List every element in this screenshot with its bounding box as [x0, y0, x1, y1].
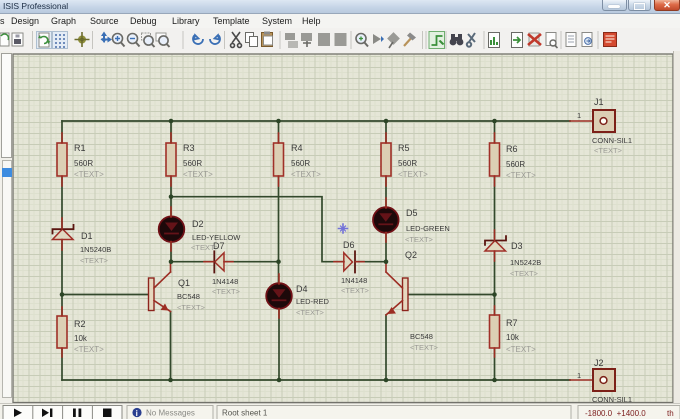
wire D6 cathode to node: [356, 261, 387, 263]
resistor R2: [57, 316, 104, 354]
toolbar: [0, 28, 680, 53]
wire top power rail: [62, 120, 570, 122]
svg-text:Root sheet 1: Root sheet 1: [222, 409, 268, 418]
svg-text:<TEXT>: <TEXT>: [510, 269, 539, 278]
svg-text:<TEXT>: <TEXT>: [296, 308, 325, 317]
icon: copy: [246, 33, 258, 47]
junction node R4/D4: [276, 259, 281, 264]
svg-text:1N4148: 1N4148: [341, 276, 367, 285]
junction top rail R3: [169, 119, 174, 124]
icon: doc export: [582, 33, 592, 47]
junction top rail R6: [492, 119, 497, 124]
svg-text:Q1: Q1: [178, 278, 190, 288]
sim buttons: [0, 403, 680, 419]
menu bar: [0, 14, 680, 28]
svg-text:D4: D4: [296, 284, 308, 294]
resistor R5: [381, 143, 428, 179]
svg-text:R5: R5: [398, 143, 410, 153]
wire R2 branch down to ground: [61, 295, 63, 381]
wire D2 to D7 node: [171, 242, 214, 262]
svg-text:D3: D3: [511, 241, 523, 251]
svg-text:J1: J1: [594, 97, 604, 107]
icon: grid dots (toggled): [53, 32, 68, 49]
svg-text:R3: R3: [183, 143, 195, 153]
icon: zoom in: [113, 34, 125, 47]
icon: edit magnifier: [356, 34, 368, 47]
svg-text:No Messages: No Messages: [146, 409, 195, 418]
status bar: [0, 403, 680, 419]
marker blue cross: [339, 224, 348, 233]
svg-text:D6: D6: [343, 240, 355, 250]
zener diode D3: [485, 236, 541, 278]
icon: refresh page (toggled): [37, 32, 52, 49]
icon: block copy: [285, 33, 298, 48]
svg-text:560R: 560R: [506, 160, 525, 169]
wire bottom ground rail: [62, 379, 570, 381]
wire Q2 emitter to ground: [385, 315, 387, 380]
svg-text:1N5240B: 1N5240B: [80, 245, 111, 254]
icon: autoroute (toggled): [429, 32, 445, 49]
svg-text:<TEXT>: <TEXT>: [80, 256, 109, 265]
svg-text:<TEXT>: <TEXT>: [410, 343, 439, 352]
svg-text:D2: D2: [192, 219, 204, 229]
icon: goto: [373, 34, 384, 44]
junction bottom rail R7: [492, 378, 497, 383]
icon: goto sheet: [546, 33, 558, 49]
icon: hammer: [404, 33, 416, 47]
icon: pin tool: [387, 32, 400, 48]
svg-text:<TEXT>: <TEXT>: [594, 146, 623, 155]
svg-text:10k: 10k: [506, 333, 520, 342]
icon: zoom full: [156, 33, 170, 47]
resistor R1: [57, 143, 104, 179]
junction node D2/D7: [169, 259, 174, 264]
icon: cut: [231, 32, 242, 48]
svg-text:CONN-SIL1: CONN-SIL1: [592, 136, 632, 145]
svg-text:LED-GREEN: LED-GREEN: [406, 224, 450, 233]
svg-text:<TEXT>: <TEXT>: [506, 345, 536, 354]
diode D7: [212, 241, 241, 296]
icon: origin: [75, 32, 90, 47]
title text: [3, 1, 68, 11]
icon: BOM red: [604, 33, 617, 47]
svg-text:<TEXT>: <TEXT>: [341, 286, 370, 295]
wire Q2 collector stem: [385, 262, 387, 272]
icon: block rotate: [318, 33, 330, 46]
resistor R3: [166, 143, 213, 179]
svg-text:<TEXT>: <TEXT>: [74, 345, 104, 354]
wire R5 branch to D5: [385, 121, 387, 208]
left panel: [0, 51, 12, 403]
wire D4 to ground: [278, 309, 280, 380]
svg-text:R7: R7: [506, 318, 518, 328]
pin stubs red: [62, 133, 495, 357]
icon: undo: [193, 35, 203, 44]
svg-text:560R: 560R: [291, 159, 310, 168]
junction node Q2 base/R7: [492, 292, 497, 297]
junction bottom rail D4: [277, 378, 282, 383]
svg-text:1N5242B: 1N5242B: [510, 258, 541, 267]
svg-text:560R: 560R: [183, 159, 202, 168]
wire left branch R1-D1-node: [61, 121, 63, 295]
junction node D5/D6/Q2c: [384, 259, 389, 264]
icon: property tool: [467, 33, 475, 47]
svg-text:R6: R6: [506, 144, 518, 154]
svg-text:1: 1: [577, 111, 581, 120]
icon: binoculars: [450, 34, 464, 45]
resistor R6: [490, 143, 537, 180]
icon: zoom out: [128, 34, 140, 47]
svg-text:D1: D1: [81, 231, 93, 241]
icon: paste: [262, 32, 273, 47]
wire R3 branch: [170, 121, 172, 217]
icon: sheet chart: [489, 33, 500, 48]
svg-text:<TEXT>: <TEXT>: [177, 303, 206, 312]
svg-text:CONN-SIL1: CONN-SIL1: [592, 395, 632, 403]
svg-text:R2: R2: [74, 319, 86, 329]
svg-text:<TEXT>: <TEXT>: [405, 235, 434, 244]
icon: save sheet: [12, 33, 23, 46]
svg-text:1N4148: 1N4148: [212, 277, 238, 286]
svg-text:560R: 560R: [398, 159, 417, 168]
resistor R4: [274, 143, 322, 179]
icon: zoom area: [142, 33, 155, 47]
svg-text:<TEXT>: <TEXT>: [398, 170, 428, 179]
wire Q1 base: [62, 294, 148, 296]
wire R7 branch to ground: [494, 295, 496, 381]
svg-text:R1: R1: [74, 143, 86, 153]
junction node R3: [169, 194, 174, 199]
svg-text:<TEXT>: <TEXT>: [506, 171, 536, 180]
svg-text:<TEXT>: <TEXT>: [291, 170, 321, 179]
wire R3 node to D6: [171, 197, 344, 262]
icon: doc lines: [566, 33, 576, 47]
title bar: [0, 0, 680, 14]
svg-text:<TEXT>: <TEXT>: [212, 287, 241, 296]
svg-text:BC548: BC548: [177, 292, 200, 301]
icon: pan: [101, 32, 113, 44]
window buttons: [602, 0, 627, 11]
junction bottom rail Q2e: [384, 378, 389, 383]
svg-text:<TEXT>: <TEXT>: [183, 170, 213, 179]
wire J2 pin: [570, 379, 593, 381]
svg-text:<TEXT>: <TEXT>: [74, 170, 104, 179]
wire Q1 emitter to ground: [170, 312, 172, 381]
wire D7 to R4 node: [224, 261, 279, 263]
icon: new sheet (cut): [0, 33, 9, 46]
LED D5 (green): [373, 207, 450, 244]
svg-text:Q2: Q2: [405, 250, 417, 260]
LED D4 (red): [266, 283, 329, 317]
svg-text:R4: R4: [291, 143, 303, 153]
svg-text:i: i: [136, 409, 138, 418]
wire D5 to D6 node: [385, 233, 387, 262]
svg-text:560R: 560R: [74, 159, 93, 168]
connector J2: [577, 358, 632, 404]
transistor Q2: [386, 250, 439, 352]
icon: block delete: [335, 33, 347, 46]
wire Q1 collector stem: [170, 262, 172, 272]
svg-text:1: 1: [577, 371, 581, 380]
svg-text:D5: D5: [406, 208, 418, 218]
wire Q2 base: [408, 294, 495, 296]
right scrollbar strip: [673, 51, 680, 403]
zener diode D1: [53, 225, 112, 265]
svg-text:D7: D7: [213, 241, 225, 251]
icon: remove sheet: [528, 33, 541, 46]
junction top rail R5: [384, 119, 389, 124]
resistor R7: [490, 315, 537, 354]
svg-text:10k: 10k: [74, 334, 88, 343]
svg-text:LED-RED: LED-RED: [296, 297, 330, 306]
wire R6 branch to D3: [494, 121, 496, 238]
svg-text:BC548: BC548: [410, 332, 433, 341]
svg-text:J2: J2: [594, 358, 604, 368]
svg-text:th: th: [667, 409, 674, 418]
wire R4 branch: [278, 121, 280, 284]
junction bottom rail Q1e: [168, 378, 173, 383]
wire D3 to node: [494, 251, 496, 295]
svg-text:-1800.0 +1400.0: -1800.0 +1400.0: [585, 409, 646, 418]
icon: redo: [210, 35, 220, 44]
icon: sheet next: [512, 33, 523, 48]
junction node Q1 base: [60, 292, 65, 297]
transistor Q1: [149, 272, 206, 312]
wire J1 pin: [570, 120, 593, 122]
junction top rail R4: [276, 119, 281, 124]
LED D2 (yellow): [159, 216, 242, 252]
connector J1: [577, 97, 632, 155]
icon: block move: [301, 33, 312, 47]
diode D6: [341, 240, 370, 295]
